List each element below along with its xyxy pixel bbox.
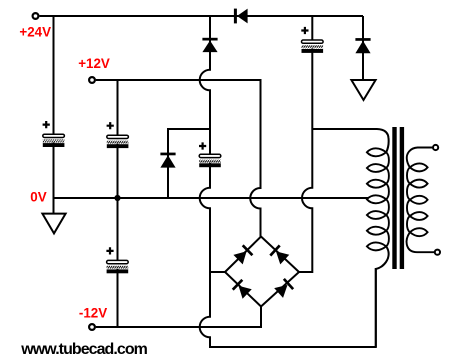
wire primary exit hook	[376, 246, 389, 347]
wire branch to shunt diode	[168, 129, 210, 198]
diode D-shunt (pointing up at x=168)	[160, 153, 175, 168]
capacitor C3 (middle, x=210)	[199, 142, 221, 167]
svg-text:+12V: +12V	[78, 56, 110, 71]
terminal secondary bottom	[435, 250, 440, 255]
wire cap5 vertical to bridge right	[299, 16, 312, 272]
bridge diode upper-left (L to T)	[233, 245, 252, 264]
terminal +24V	[33, 13, 39, 19]
terminal secondary top	[433, 145, 438, 150]
wire top rail +24V	[39, 15, 363, 17]
bridge rectifier diamond	[225, 237, 299, 307]
ground symbol left	[42, 214, 65, 234]
svg-text:+24V: +24V	[19, 24, 51, 39]
svg-text:www.tubecad.com: www.tubecad.com	[20, 341, 147, 358]
capacitor C4 (-12V)	[106, 247, 128, 273]
diode D-top (series, pointing left)	[234, 9, 248, 24]
capacitor C2 (+12V rail)	[107, 122, 129, 148]
transformer secondary winding (5 loops)	[407, 163, 428, 236]
wire bridge left stub	[210, 271, 225, 273]
wire cap ladder vertical	[117, 80, 119, 327]
wire secondary top lead	[407, 148, 433, 168]
junction dot 0V	[114, 195, 120, 201]
wire main middle vertical with hops and bottom rail	[200, 16, 376, 347]
wire top-right drop to diode and ground	[362, 16, 364, 80]
wire +24V drop to 0V rail	[53, 16, 55, 198]
wire 0V rail	[54, 197, 369, 199]
terminal +12V	[89, 77, 95, 83]
wire -12V rail to bridge bottom	[96, 307, 261, 328]
capacitor C5 (top, x=312)	[301, 27, 323, 53]
diode D-right (pointing up at x=363)	[355, 38, 370, 53]
diode D-mid (pointing up at x=210)	[202, 38, 217, 52]
transformer core bars	[392, 127, 396, 269]
svg-text:-12V: -12V	[79, 305, 107, 320]
wire primary top lead	[312, 129, 388, 152]
ground symbol right	[351, 80, 375, 100]
bridge diode lower-left (B to L)	[233, 280, 252, 299]
terminal -12V	[89, 324, 95, 330]
wire +12V rail to bridge top	[96, 80, 261, 237]
wire ground stub left	[53, 198, 55, 214]
wire secondary bottom lead	[407, 232, 435, 252]
transformer primary winding (7 loops)	[367, 148, 389, 250]
svg-text:0V: 0V	[30, 190, 46, 205]
capacitor C1 (+24V rail)	[43, 121, 65, 147]
bridge diode upper-right (R to T)	[270, 245, 289, 264]
bridge diode lower-right (B to R)	[274, 279, 293, 298]
